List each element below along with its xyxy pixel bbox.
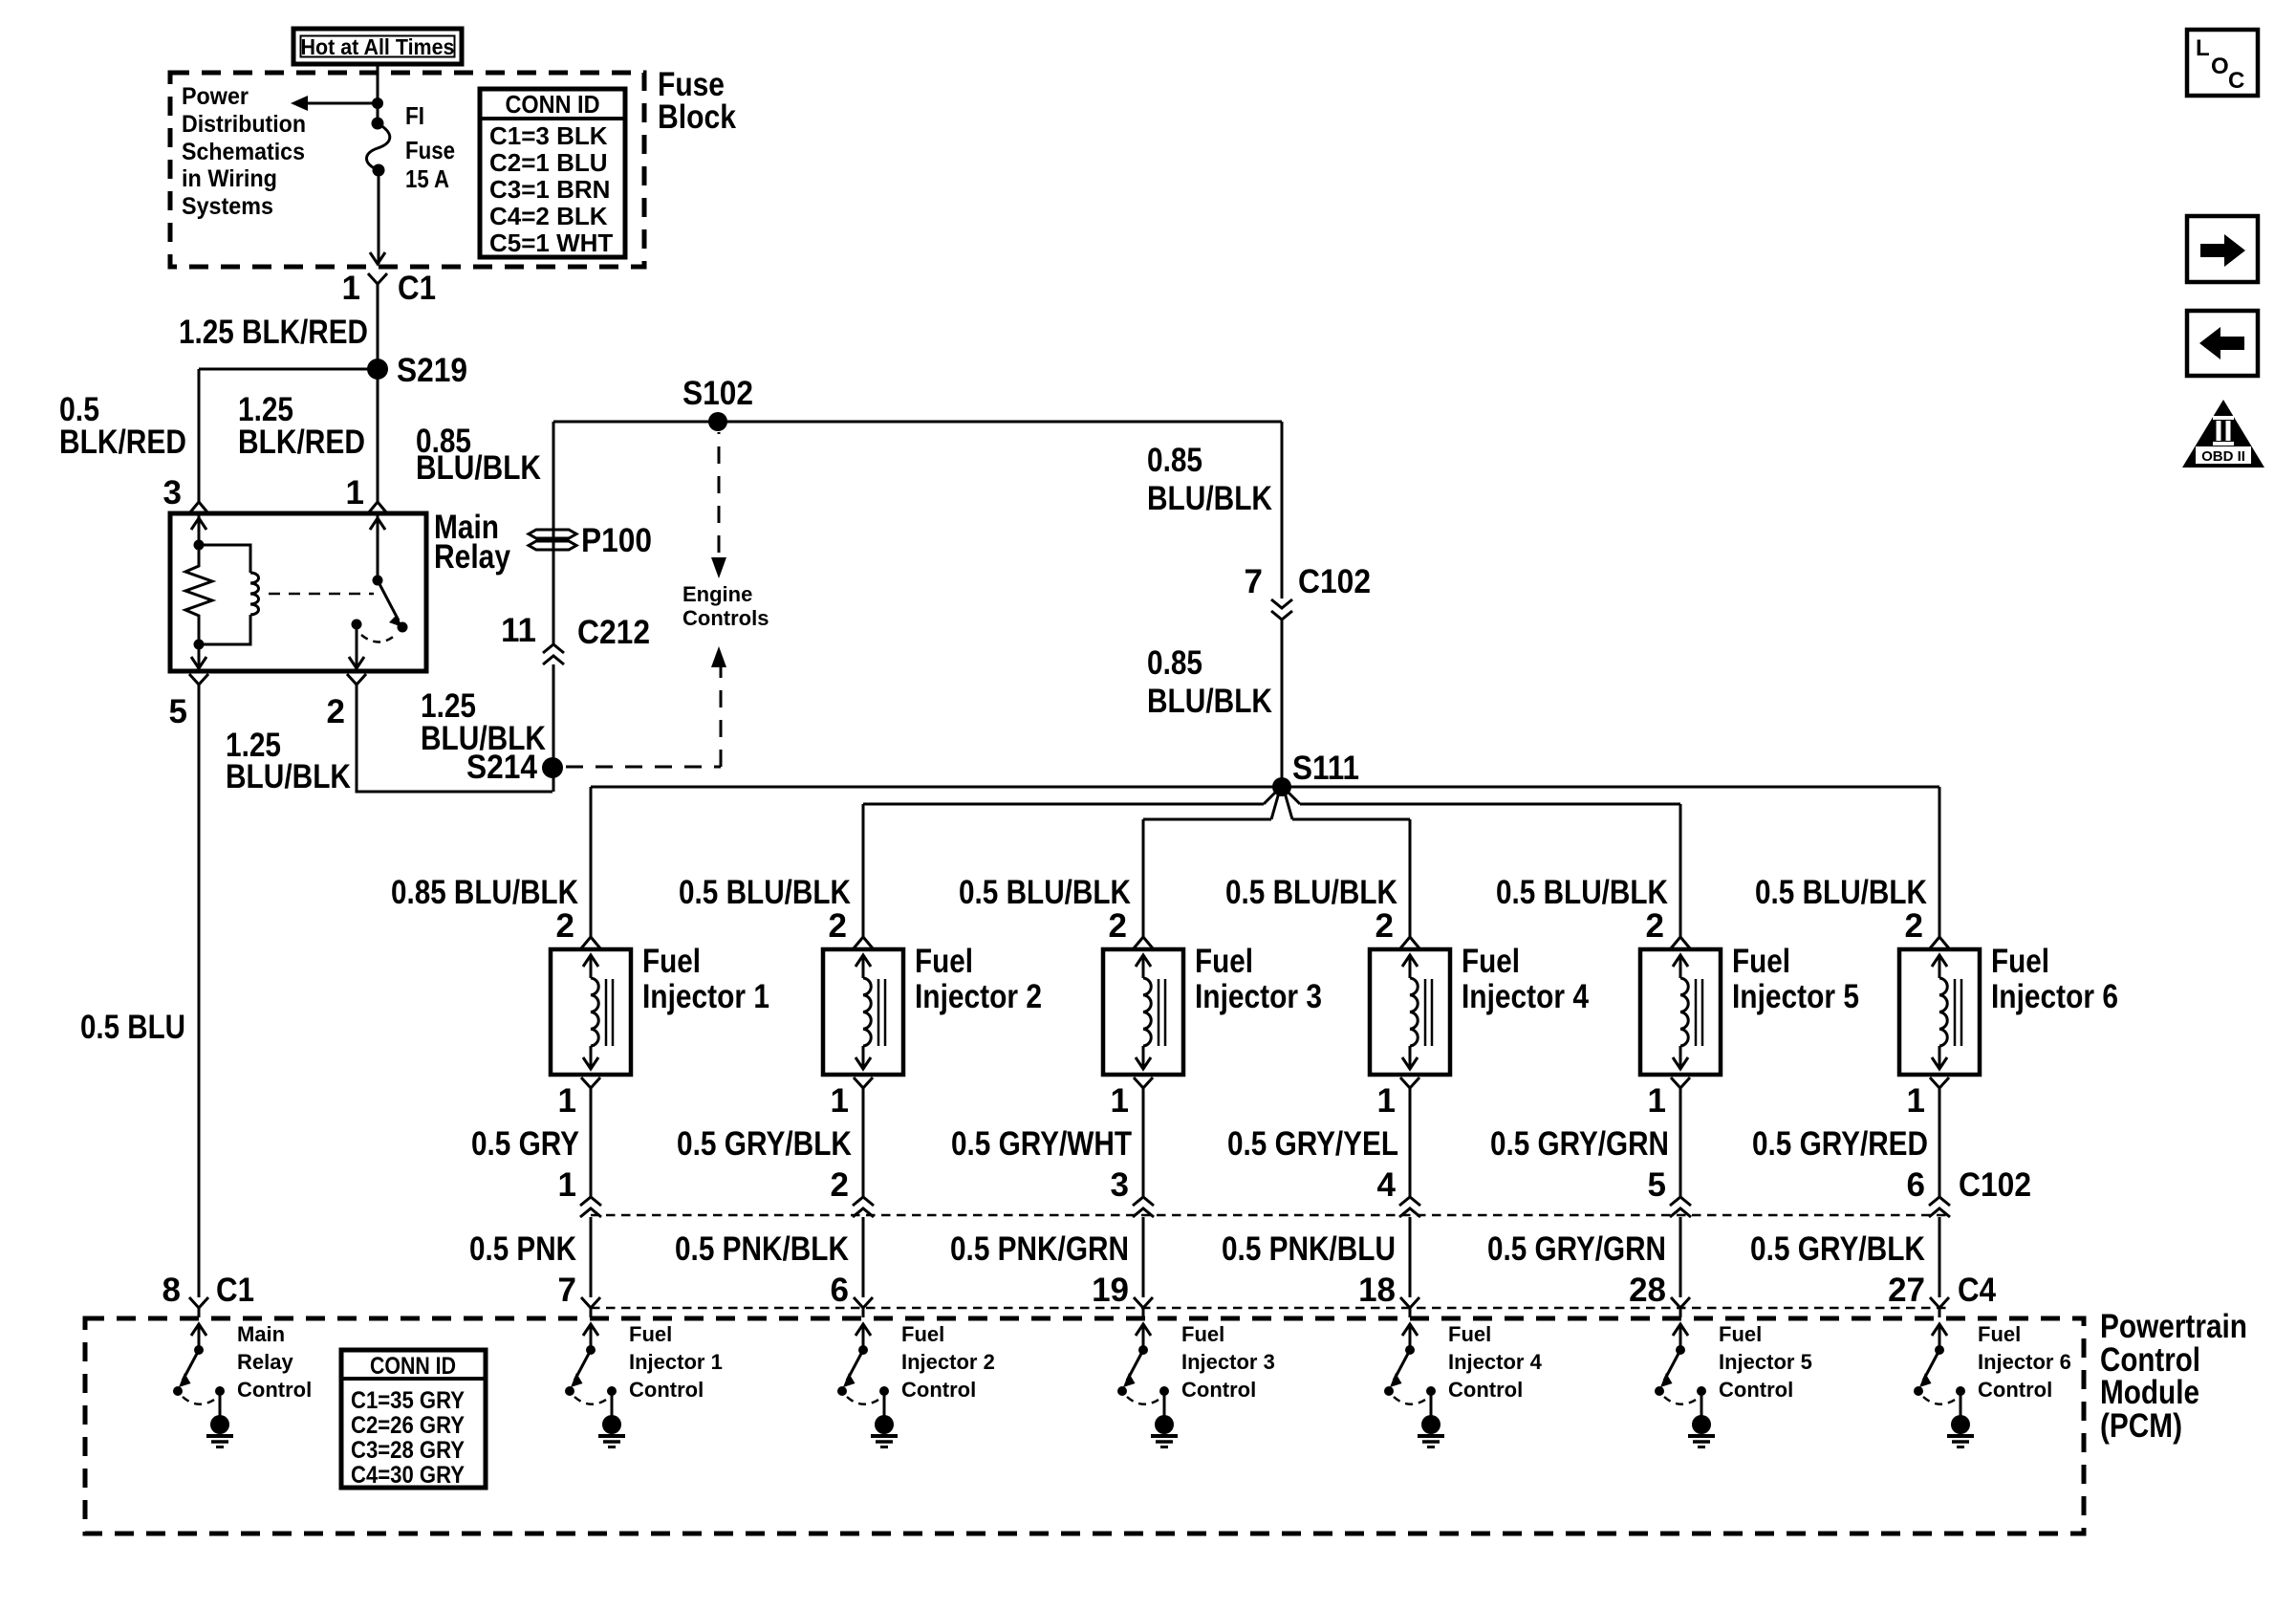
svg-text:C4: C4 bbox=[1958, 1272, 1996, 1309]
grommet P100 bbox=[529, 530, 576, 538]
icon: forward arrow bbox=[2187, 216, 2258, 282]
svg-text:Injector 4: Injector 4 bbox=[1462, 978, 1589, 1015]
ground bbox=[1692, 1415, 1711, 1434]
svg-text:BLU/BLK: BLU/BLK bbox=[416, 449, 541, 487]
svg-text:Distribution: Distribution bbox=[182, 111, 306, 138]
wire: injector 4 to C102 pin 4 bbox=[1409, 1099, 1412, 1197]
fuel injector 1 bbox=[551, 949, 631, 1075]
wire: C102 to PCM pin 18 bbox=[1409, 1217, 1412, 1297]
svg-text:L: L bbox=[2196, 35, 2210, 61]
splice S214 bbox=[542, 757, 563, 778]
fuel injector 1 pin 1 bbox=[581, 1077, 600, 1088]
driver: fuel injector 6 control bbox=[1932, 1324, 1947, 1336]
svg-text:Control: Control bbox=[1978, 1378, 2052, 1402]
dashed link S214 to Engine Controls bbox=[566, 766, 721, 769]
label box: Hot at All Times bbox=[293, 29, 462, 64]
svg-text:2: 2 bbox=[831, 1166, 849, 1204]
svg-text:C5=1 WHT: C5=1 WHT bbox=[489, 228, 613, 257]
driver: fuel injector 4 control bbox=[1402, 1324, 1418, 1336]
wire: S111 to fuel injector 6 pin 2 bbox=[1939, 787, 1941, 937]
wire: relay pin 2 to S214 (1.25 BLU/BLK) bbox=[357, 696, 552, 792]
wire: S111 rail 2 right bbox=[1300, 803, 1680, 806]
fuel injector 6 bbox=[1899, 949, 1980, 1075]
splice S102 bbox=[708, 412, 727, 431]
svg-text:Control: Control bbox=[1181, 1378, 1256, 1402]
svg-text:Control: Control bbox=[629, 1378, 704, 1402]
svg-text:Hot at All Times: Hot at All Times bbox=[301, 34, 455, 59]
ground bbox=[602, 1415, 621, 1434]
svg-text:C212: C212 bbox=[577, 614, 650, 651]
svg-text:Injector 5: Injector 5 bbox=[1719, 1350, 1812, 1374]
wire: C212 to S214 bbox=[552, 664, 555, 792]
svg-text:0.5 GRY/BLK: 0.5 GRY/BLK bbox=[677, 1125, 852, 1163]
ground bbox=[1951, 1415, 1970, 1434]
svg-text:Injector 3: Injector 3 bbox=[1195, 978, 1322, 1015]
fuse block dashed boundary bbox=[170, 73, 644, 267]
svg-text:C102: C102 bbox=[1959, 1166, 2031, 1204]
svg-text:28: 28 bbox=[1629, 1272, 1666, 1309]
svg-text:1: 1 bbox=[342, 270, 360, 307]
svg-text:2: 2 bbox=[1109, 907, 1127, 945]
svg-text:1: 1 bbox=[558, 1166, 576, 1204]
connector C4 dashed line bbox=[591, 1307, 1946, 1310]
wire: fuse to connector C1 bbox=[378, 170, 380, 264]
wire: 1.25 BLK/RED bbox=[377, 295, 379, 369]
svg-text:Systems: Systems bbox=[182, 193, 273, 220]
svg-text:0.5 GRY/BLK: 0.5 GRY/BLK bbox=[1750, 1230, 1925, 1268]
svg-text:Fuel: Fuel bbox=[1991, 943, 2049, 980]
svg-text:Injector 6: Injector 6 bbox=[1991, 978, 2118, 1015]
wire: C102 to PCM pin 6 bbox=[862, 1217, 865, 1297]
wire: relay pin 5 to PCM pin 8 (0.5 BLU) bbox=[198, 696, 201, 1297]
S111 fan stubs bbox=[1264, 791, 1277, 804]
svg-text:8: 8 bbox=[162, 1272, 181, 1309]
svg-text:15 A: 15 A bbox=[405, 164, 449, 193]
svg-text:0.5 GRY/WHT: 0.5 GRY/WHT bbox=[951, 1125, 1132, 1163]
svg-text:C1=35 GRY: C1=35 GRY bbox=[351, 1387, 465, 1414]
svg-text:BLK/RED: BLK/RED bbox=[59, 424, 186, 461]
fuel injector 4 bbox=[1370, 949, 1450, 1075]
svg-text:Relay: Relay bbox=[237, 1350, 293, 1374]
svg-text:Schematics: Schematics bbox=[182, 139, 305, 165]
fuel injector 6 pin 1 bbox=[1930, 1077, 1949, 1088]
fuel injector 4 pin 1 bbox=[1400, 1077, 1419, 1088]
svg-text:Injector 3: Injector 3 bbox=[1181, 1350, 1275, 1374]
engine controls reference bbox=[711, 646, 726, 667]
svg-text:C3=1 BRN: C3=1 BRN bbox=[489, 175, 610, 204]
svg-text:BLU/BLK: BLU/BLK bbox=[1147, 683, 1272, 720]
wire: S102 to C102 pin 7 bbox=[1281, 422, 1284, 598]
svg-text:18: 18 bbox=[1358, 1272, 1396, 1309]
svg-text:C1: C1 bbox=[216, 1272, 254, 1309]
svg-text:O: O bbox=[2211, 54, 2229, 79]
svg-text:Fuel: Fuel bbox=[915, 943, 973, 980]
icon: OBD II bbox=[2182, 400, 2264, 468]
svg-text:2: 2 bbox=[829, 907, 847, 945]
table: CONN ID (PCM) bbox=[341, 1350, 486, 1488]
svg-text:1: 1 bbox=[1111, 1082, 1129, 1120]
wire: C212 to S102 (0.85 BLU/BLK) bbox=[552, 422, 555, 643]
svg-text:S219: S219 bbox=[397, 352, 467, 389]
wire: C102 to PCM pin 19 bbox=[1142, 1217, 1145, 1297]
svg-text:BLU/BLK: BLU/BLK bbox=[1147, 480, 1272, 517]
svg-text:Main: Main bbox=[237, 1322, 285, 1346]
svg-text:Controls: Controls bbox=[682, 606, 769, 630]
svg-text:1: 1 bbox=[346, 474, 364, 511]
svg-text:1: 1 bbox=[1377, 1082, 1396, 1120]
svg-text:Injector 5: Injector 5 bbox=[1732, 978, 1859, 1015]
svg-text:Fuel: Fuel bbox=[1719, 1322, 1762, 1346]
svg-text:Control: Control bbox=[237, 1378, 312, 1402]
svg-text:C2=1 BLU: C2=1 BLU bbox=[489, 148, 608, 177]
svg-text:0.5 GRY/GRN: 0.5 GRY/GRN bbox=[1487, 1230, 1666, 1268]
svg-text:0.5 BLU/BLK: 0.5 BLU/BLK bbox=[679, 874, 851, 911]
svg-text:Injector 2: Injector 2 bbox=[901, 1350, 995, 1374]
wire: S111 rail 3 left bbox=[1143, 818, 1271, 821]
connector C102 dashed line bbox=[591, 1214, 1946, 1217]
wire: S102 rail bbox=[553, 421, 1282, 424]
ground bbox=[875, 1415, 894, 1434]
svg-text:0.5 BLU/BLK: 0.5 BLU/BLK bbox=[1496, 874, 1668, 911]
fuel injector 2 bbox=[823, 949, 903, 1075]
svg-text:Fuel: Fuel bbox=[901, 1322, 944, 1346]
svg-text:0.85: 0.85 bbox=[1147, 442, 1202, 479]
driver: fuel injector 2 control bbox=[856, 1324, 871, 1336]
svg-text:Control: Control bbox=[1719, 1378, 1793, 1402]
svg-text:0.5 BLU/BLK: 0.5 BLU/BLK bbox=[1225, 874, 1397, 911]
driver: fuel injector 1 control bbox=[583, 1324, 598, 1336]
wire: S111 to fuel injector 3 pin 2 bbox=[1142, 819, 1145, 937]
svg-text:2: 2 bbox=[327, 693, 345, 730]
svg-text:0.5 GRY/GRN: 0.5 GRY/GRN bbox=[1490, 1125, 1669, 1163]
svg-text:3: 3 bbox=[163, 474, 182, 511]
svg-text:7: 7 bbox=[1245, 563, 1263, 600]
wire: S111 rail 2 left bbox=[863, 803, 1264, 806]
ground bbox=[210, 1415, 229, 1434]
relay resistor bbox=[185, 545, 212, 644]
svg-text:Fuel: Fuel bbox=[1462, 943, 1520, 980]
svg-text:Injector 1: Injector 1 bbox=[629, 1350, 723, 1374]
fuel injector 3 pin 1 bbox=[1134, 1077, 1153, 1088]
wire: C102 to PCM pin 27 bbox=[1939, 1217, 1941, 1297]
wire: S219 down to relay pin 1 bbox=[377, 369, 379, 502]
svg-text:Fuel: Fuel bbox=[1195, 943, 1253, 980]
driver: fuel injector 5 control bbox=[1673, 1324, 1688, 1336]
wire: S219 branch to relay pin 3 bbox=[199, 368, 378, 371]
driver: fuel injector 3 control bbox=[1136, 1324, 1151, 1336]
relay: Main Relay box bbox=[170, 513, 426, 671]
svg-text:Injector 1: Injector 1 bbox=[642, 978, 769, 1015]
junction dot + arrow to Power Distribution bbox=[372, 98, 383, 109]
wire: injector 3 to C102 pin 3 bbox=[1142, 1099, 1145, 1197]
svg-text:11: 11 bbox=[501, 612, 536, 649]
svg-text:0.5 PNK/BLK: 0.5 PNK/BLK bbox=[675, 1230, 849, 1268]
svg-text:Fuel: Fuel bbox=[1732, 943, 1790, 980]
svg-text:Injector 6: Injector 6 bbox=[1978, 1350, 2071, 1374]
svg-text:0.5 GRY: 0.5 GRY bbox=[471, 1125, 579, 1163]
svg-text:BLU/BLK: BLU/BLK bbox=[226, 758, 351, 795]
svg-text:S111: S111 bbox=[1292, 750, 1359, 787]
svg-text:in Wiring: in Wiring bbox=[182, 165, 277, 192]
PCM dashed boundary bbox=[85, 1318, 2084, 1534]
svg-text:Fuel: Fuel bbox=[642, 943, 701, 980]
svg-text:C1: C1 bbox=[398, 270, 436, 307]
svg-text:C2=26 GRY: C2=26 GRY bbox=[351, 1412, 465, 1439]
relay actuation dashed link bbox=[269, 593, 374, 596]
svg-text:1: 1 bbox=[1907, 1082, 1925, 1120]
driver: main relay control bbox=[191, 1324, 206, 1336]
relay coil bbox=[199, 545, 250, 573]
svg-text:Module: Module bbox=[2100, 1374, 2199, 1411]
fuel injector 3 bbox=[1103, 949, 1183, 1075]
ground bbox=[1155, 1415, 1174, 1434]
splice S219 bbox=[367, 359, 388, 380]
svg-text:0.5 PNK/BLU: 0.5 PNK/BLU bbox=[1222, 1230, 1396, 1268]
wire: injector 6 to C102 pin 6 bbox=[1939, 1099, 1941, 1197]
wire: S111 to fuel injector 1 pin 2 bbox=[590, 787, 593, 937]
svg-text:C102: C102 bbox=[1298, 563, 1371, 600]
svg-text:OBD II: OBD II bbox=[2201, 448, 2245, 465]
fuel injector 5 bbox=[1640, 949, 1721, 1075]
wire: injector 2 to C102 pin 2 bbox=[862, 1099, 865, 1197]
svg-text:0.5 BLU: 0.5 BLU bbox=[80, 1009, 185, 1046]
svg-text:7: 7 bbox=[558, 1272, 576, 1309]
svg-text:Fuel: Fuel bbox=[1181, 1322, 1224, 1346]
svg-text:Power: Power bbox=[182, 83, 249, 110]
svg-text:(PCM): (PCM) bbox=[2100, 1407, 2182, 1445]
svg-text:0.5 BLU/BLK: 0.5 BLU/BLK bbox=[959, 874, 1131, 911]
svg-text:Block: Block bbox=[658, 98, 736, 136]
svg-text:CONN ID: CONN ID bbox=[506, 90, 600, 119]
svg-text:1: 1 bbox=[1648, 1082, 1666, 1120]
fuse FI 15 A bbox=[372, 118, 384, 130]
wire: battery feed into fuse block bbox=[377, 64, 379, 124]
svg-text:1: 1 bbox=[831, 1082, 849, 1120]
svg-text:FI: FI bbox=[405, 101, 424, 130]
svg-text:2: 2 bbox=[1905, 907, 1923, 945]
svg-text:Fuel: Fuel bbox=[1448, 1322, 1491, 1346]
icon: back arrow bbox=[2187, 311, 2258, 376]
wire: S111 to fuel injector 4 pin 2 bbox=[1409, 819, 1412, 937]
svg-text:P100: P100 bbox=[581, 522, 652, 559]
wire: C102 to PCM pin 28 bbox=[1679, 1217, 1682, 1297]
svg-text:S102: S102 bbox=[682, 375, 753, 412]
relay coil branch wire bbox=[198, 513, 201, 545]
svg-text:C4=30 GRY: C4=30 GRY bbox=[351, 1462, 465, 1489]
svg-text:19: 19 bbox=[1092, 1272, 1129, 1309]
svg-text:0.85: 0.85 bbox=[1147, 644, 1202, 682]
wire: injector 5 to C102 pin 5 bbox=[1679, 1099, 1682, 1197]
table: CONN ID (fuse block) bbox=[480, 89, 625, 257]
svg-text:0.85 BLU/BLK: 0.85 BLU/BLK bbox=[391, 874, 578, 911]
wire: S111 to fuel injector 5 pin 2 bbox=[1679, 804, 1682, 937]
svg-text:5: 5 bbox=[1648, 1166, 1666, 1204]
wire: C102 to S111 bbox=[1281, 620, 1284, 787]
svg-text:Engine: Engine bbox=[682, 582, 752, 606]
ground bbox=[1421, 1415, 1440, 1434]
svg-text:6: 6 bbox=[1907, 1166, 1925, 1204]
svg-text:Injector 2: Injector 2 bbox=[915, 978, 1042, 1015]
svg-text:2: 2 bbox=[1375, 907, 1394, 945]
svg-text:CONN ID: CONN ID bbox=[370, 1353, 456, 1380]
svg-text:5: 5 bbox=[169, 693, 187, 730]
svg-text:2: 2 bbox=[1646, 907, 1664, 945]
svg-text:2: 2 bbox=[556, 907, 574, 945]
svg-text:S214: S214 bbox=[466, 749, 537, 786]
svg-text:27: 27 bbox=[1888, 1272, 1925, 1309]
svg-text:3: 3 bbox=[1111, 1166, 1129, 1204]
fuel injector 2 pin 1 bbox=[854, 1077, 873, 1088]
wire: S111 to fuel injector 2 pin 2 bbox=[862, 804, 865, 937]
wire: S111 rail 1 bbox=[591, 786, 1939, 789]
relay coil exit arrow to pin 5 bbox=[198, 644, 201, 668]
relay switch bbox=[377, 513, 379, 580]
svg-text:4: 4 bbox=[1377, 1166, 1397, 1204]
svg-text:Injector 4: Injector 4 bbox=[1448, 1350, 1543, 1374]
wire: C102 to PCM pin 7 bbox=[590, 1217, 593, 1297]
svg-text:Control: Control bbox=[1448, 1378, 1523, 1402]
svg-text:0.5 PNK: 0.5 PNK bbox=[469, 1230, 576, 1268]
svg-text:0.5 GRY/YEL: 0.5 GRY/YEL bbox=[1227, 1125, 1398, 1163]
svg-text:Relay: Relay bbox=[434, 538, 510, 576]
svg-text:BLK/RED: BLK/RED bbox=[238, 424, 365, 461]
svg-text:Fuse: Fuse bbox=[405, 136, 455, 164]
svg-text:Fuel: Fuel bbox=[1978, 1322, 2021, 1346]
svg-text:1.25 BLK/RED: 1.25 BLK/RED bbox=[179, 314, 368, 351]
icon: LOC box bbox=[2187, 30, 2258, 96]
svg-text:Powertrain: Powertrain bbox=[2100, 1308, 2247, 1345]
splice S111 bbox=[1272, 777, 1291, 796]
wire: injector 1 to C102 pin 1 bbox=[590, 1099, 593, 1197]
svg-text:0.5 GRY/RED: 0.5 GRY/RED bbox=[1752, 1125, 1928, 1163]
svg-text:0.5 PNK/GRN: 0.5 PNK/GRN bbox=[950, 1230, 1129, 1268]
wire: S111 rail 3 right bbox=[1292, 818, 1410, 821]
svg-text:C3=28 GRY: C3=28 GRY bbox=[351, 1437, 465, 1464]
svg-text:C4=2 BLK: C4=2 BLK bbox=[489, 202, 608, 230]
fuel injector 5 pin 1 bbox=[1671, 1077, 1690, 1088]
svg-text:0.5 BLU/BLK: 0.5 BLU/BLK bbox=[1755, 874, 1927, 911]
svg-text:C1=3 BLK: C1=3 BLK bbox=[489, 121, 608, 150]
svg-text:1: 1 bbox=[558, 1082, 576, 1120]
svg-text:Control: Control bbox=[901, 1378, 976, 1402]
svg-text:Fuel: Fuel bbox=[629, 1322, 672, 1346]
svg-text:6: 6 bbox=[831, 1272, 849, 1309]
svg-text:C: C bbox=[2228, 68, 2244, 94]
